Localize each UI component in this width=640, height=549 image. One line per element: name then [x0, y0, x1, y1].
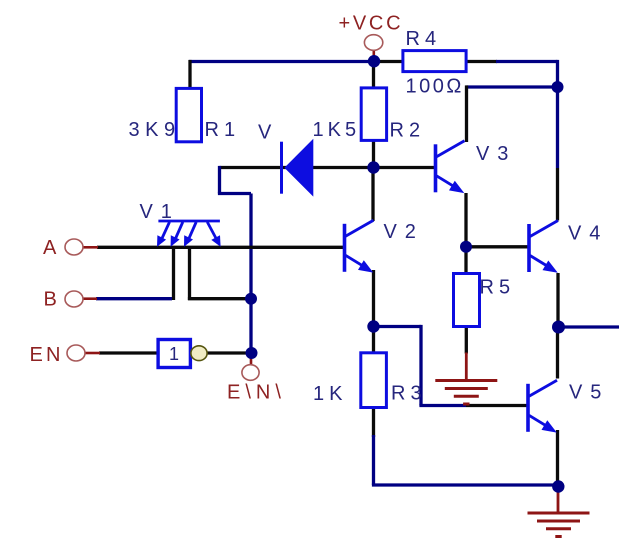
wire V5 base right seg	[466, 404, 527, 407]
wire V2 collector riser	[371, 168, 374, 222]
svg-text:3K9: 3K9	[129, 119, 181, 141]
transistor V3	[436, 141, 465, 193]
wire B horizontal	[96, 297, 172, 300]
resistor R3	[361, 353, 387, 408]
svg-text:V: V	[258, 122, 274, 144]
transistor V5	[528, 380, 557, 432]
wire input A net	[97, 246, 344, 249]
wire junction to R4	[373, 60, 404, 63]
wire R5 bottom lead	[465, 325, 468, 354]
node junction bottom	[552, 480, 564, 492]
svg-text:R4: R4	[406, 28, 442, 50]
wire right corner down	[556, 60, 559, 87]
svg-text:V 2: V 2	[384, 221, 418, 243]
svg-text:1K5: 1K5	[313, 119, 361, 141]
wire V4 base	[466, 245, 528, 248]
wire top-right junction left	[467, 85, 558, 88]
terminal B stem	[83, 297, 97, 300]
wire EN dropper	[188, 247, 191, 300]
node junction R2 bottom	[367, 161, 379, 173]
svg-text:R2: R2	[390, 120, 426, 142]
svg-text:B: B	[44, 289, 60, 311]
wire V4 emitter drop	[556, 273, 559, 329]
wire R2 top lead	[372, 62, 375, 91]
terminal ENbar stem	[250, 356, 253, 366]
svg-text:V 3: V 3	[476, 143, 510, 165]
node junction output	[552, 321, 565, 334]
wire diode anode drop	[218, 166, 221, 194]
wire R4 to right corner	[465, 60, 497, 63]
node junction V2 emitter	[367, 320, 379, 332]
terminal ENbar	[242, 365, 259, 381]
wire R1 top lead	[188, 60, 191, 90]
resistor R5	[454, 274, 480, 327]
wire V3 base	[374, 166, 435, 169]
ground bottom	[528, 513, 590, 537]
svg-text:EN: EN	[30, 344, 64, 366]
wire V2 emitter drop	[372, 270, 375, 328]
wire R5 top lead	[464, 247, 467, 275]
diode V	[282, 139, 314, 197]
svg-text:R5: R5	[480, 277, 516, 299]
node junction EN	[246, 347, 258, 359]
resistor R4	[403, 51, 466, 72]
ground bottom stem	[557, 489, 560, 513]
inverter bubble	[191, 346, 207, 361]
svg-text:V 4: V 4	[568, 223, 602, 245]
svg-text:100Ω: 100Ω	[406, 76, 464, 98]
svg-text:A: A	[43, 237, 59, 259]
wire EN dropper to node	[188, 297, 247, 300]
wire V5 base riser	[419, 325, 422, 406]
wire V5 collector riser	[556, 327, 559, 379]
svg-text:+VCC: +VCC	[339, 13, 404, 35]
wire R3 bottom lead	[372, 406, 375, 437]
wire V5 base left seg	[419, 404, 466, 407]
wire output stub	[559, 325, 620, 328]
wire jog to node line	[218, 192, 251, 195]
wire V3 collector riser	[465, 85, 468, 142]
svg-text:1K: 1K	[313, 383, 347, 405]
resistor R1	[176, 88, 201, 141]
wire V5 emitter drop	[556, 430, 559, 486]
svg-text:E\N\: E\N\	[227, 382, 286, 404]
wire V4 collector riser	[556, 87, 559, 168]
wire vertical node line	[249, 194, 252, 354]
transistor V4	[529, 221, 558, 273]
terminal EN stem	[85, 352, 100, 355]
wire bubble to node	[207, 351, 248, 354]
inverter box 1	[158, 340, 190, 368]
wire V3 emitter drop	[464, 193, 467, 248]
terminal +VCC stem	[372, 51, 375, 58]
node junction top-right	[552, 81, 564, 93]
svg-text:1: 1	[169, 344, 179, 364]
ground R5 stem	[465, 353, 468, 381]
transistor V2	[345, 220, 374, 272]
svg-text:V 1: V 1	[140, 201, 174, 223]
node junction VCC	[368, 55, 380, 67]
terminal +VCC	[364, 35, 382, 51]
ground R5	[435, 381, 497, 405]
svg-text:R3: R3	[391, 383, 427, 405]
wire diode net	[220, 166, 374, 169]
terminal A	[65, 239, 83, 255]
transistor V1 (multi-emitter)	[157, 221, 221, 247]
terminal EN	[67, 345, 85, 361]
svg-text:V 5: V 5	[569, 382, 603, 404]
svg-text:R1: R1	[205, 119, 241, 141]
node junction V3 emitter	[460, 241, 472, 253]
terminal A stem	[83, 246, 98, 249]
resistor R2	[361, 88, 386, 140]
wire EN input to box	[99, 351, 159, 354]
wire VCC rail left	[189, 60, 375, 63]
wire R3 top lead	[372, 327, 375, 355]
wire bottom horizontal	[372, 483, 558, 486]
wire B dropper	[172, 247, 175, 300]
terminal B	[65, 291, 83, 307]
wire R2 bottom lead	[372, 139, 375, 168]
wire V2e junction right	[374, 325, 422, 328]
node junction B	[245, 293, 257, 305]
